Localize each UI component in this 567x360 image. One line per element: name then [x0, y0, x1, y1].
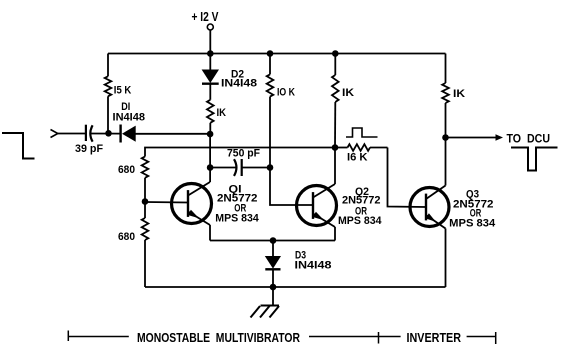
output waveform glyph (negative pulse): [511, 148, 558, 171]
svg-text:IK: IK: [217, 107, 227, 119]
svg-text:MPS 834: MPS 834: [215, 213, 259, 225]
svg-text:I5 K: I5 K: [114, 85, 132, 97]
label +12 V: [192, 9, 219, 24]
svg-text:TO DCU: TO DCU: [507, 132, 551, 146]
svg-text:I6 K: I6 K: [347, 152, 368, 164]
label 16 K: [347, 152, 368, 164]
diode D3 1N4148 (pointing down): [265, 241, 281, 288]
svg-text:IN4I48: IN4I48: [295, 260, 332, 272]
svg-text:IN4I48: IN4I48: [221, 78, 257, 90]
label Q1 OR: [234, 203, 246, 215]
+12V supply terminal: [207, 24, 213, 54]
bracket tick left: [67, 331, 69, 342]
label 10 K: [277, 87, 295, 99]
svg-text:MONOSTABLE MULTIVIBRATOR: MONOSTABLE MULTIVIBRATOR: [137, 331, 300, 345]
label 1K (below D2): [217, 107, 227, 119]
label D1: [121, 101, 130, 113]
svg-text:+ I2 V: + I2 V: [192, 9, 219, 24]
diode D2 1N4148 (pointing down): [202, 54, 219, 100]
wire node F to Q3 collector: [445, 138, 447, 186]
node dot rail/D2: [207, 50, 214, 57]
node dot rail/1K Q2: [332, 50, 339, 57]
label Q3 2N5772: [453, 199, 494, 211]
label Q2 OR: [355, 206, 367, 218]
label Q3: [466, 189, 479, 201]
ground symbol: [251, 287, 280, 318]
svg-text:MPS 834: MPS 834: [338, 215, 382, 227]
node F junction dot (output): [442, 134, 449, 141]
svg-text:IK: IK: [342, 87, 354, 99]
resistor R4 680 (top): [142, 157, 149, 202]
label Q3 OR: [470, 208, 482, 220]
resistor R8 1K (Q3 load): [442, 83, 449, 138]
svg-text:IN4I48: IN4I48: [113, 112, 146, 124]
label 680 (bottom): [118, 231, 135, 243]
wire Q1 collector up: [209, 168, 211, 183]
svg-text:680: 680: [118, 231, 135, 243]
svg-text:INVERTER: INVERTER: [407, 331, 462, 345]
label D3 1N4148: [295, 260, 332, 272]
node E junction dot (Q1 base divider): [142, 198, 149, 205]
transistor Q2 2N5772: [297, 184, 337, 227]
svg-text:39 pF: 39 pF: [75, 143, 103, 155]
capacitor C1 39 pF: [86, 125, 121, 142]
svg-text:IK: IK: [453, 88, 465, 100]
bracket line right: [467, 336, 496, 338]
label D2 1N4148: [221, 78, 257, 90]
svg-text:IO K: IO K: [277, 87, 295, 99]
label Q1 MPS 834: [215, 213, 259, 225]
output arrow to DCU: [446, 134, 504, 140]
input waveform glyph (falling step): [2, 133, 35, 159]
wire Q1 base: [145, 201, 188, 204]
resistor R6 1K (Q2 load): [332, 54, 339, 148]
wire input arrow to C1: [58, 133, 86, 135]
label 1K (Q2 load): [342, 87, 354, 99]
bracket line middle-right: [379, 336, 401, 338]
bracket line left: [68, 336, 129, 338]
resistor R3 10K with leads: [267, 54, 274, 168]
label 15 K: [114, 85, 132, 97]
emitter rail wire Q1-Q2: [210, 240, 335, 242]
bracket tick middle: [378, 332, 380, 344]
node dot 750pF right: [267, 164, 274, 171]
pulse waveform glyph (positive): [346, 128, 378, 137]
label Q3 MPS 834: [449, 218, 496, 230]
label Q1: [229, 184, 242, 196]
svg-text:750 pF: 750 pF: [227, 148, 260, 160]
label D1 1N4148: [113, 112, 146, 124]
wire Q2 emitter down: [334, 227, 336, 241]
wire Q2 collector line to 680 divider: [145, 148, 335, 157]
transistor Q3 2N5772: [410, 186, 449, 229]
wire 10K node down to Q2 base: [270, 168, 313, 206]
diode D1 1N4148 (cathode left): [121, 125, 210, 143]
label Q1 2N5772: [217, 193, 258, 205]
svg-text:680: 680: [118, 164, 135, 176]
wire Q1 emitter down: [209, 225, 211, 241]
wire 16K to Q3 base: [388, 148, 427, 208]
label D2: [231, 69, 244, 81]
label D3: [295, 250, 306, 262]
label MONOSTABLE MULTIVIBRATOR: [137, 331, 300, 345]
bracket line middle: [309, 336, 379, 338]
resistor R1 15K with leads: [105, 54, 112, 134]
svg-text:MPS 834: MPS 834: [449, 218, 496, 230]
ground line wire: [145, 286, 446, 288]
bracket tick right: [495, 332, 497, 344]
wire top rail right corner down: [445, 54, 447, 84]
node dot rail/10K: [267, 50, 274, 57]
resistor R2 1K (below D2): [207, 100, 214, 134]
node dot emitter rail / D3: [270, 237, 277, 244]
input arrow chevron: [51, 130, 58, 138]
node A junction dot (input/15K/D1): [105, 130, 112, 137]
label 39 pF: [75, 143, 103, 155]
label Q2: [355, 186, 369, 198]
wire node B down to 750pF node: [209, 134, 211, 168]
node D junction dot (Q2 collector): [332, 144, 339, 151]
label 1K (Q3 load): [453, 88, 465, 100]
node dot D3 / ground line: [270, 284, 277, 291]
top rail wire: [108, 53, 446, 55]
resistor R7 16K: [335, 144, 388, 151]
label TO DCU: [507, 132, 551, 146]
resistor R5 680 (bottom): [142, 202, 149, 288]
label 750 pF: [227, 148, 260, 160]
capacitor C2 750 pF: [210, 159, 270, 176]
label 680 (top): [118, 164, 135, 176]
node dot 750pF left: [207, 164, 214, 171]
label Q2 MPS 834: [338, 215, 382, 227]
transistor Q1 2N5772: [172, 182, 212, 225]
label INVERTER: [407, 331, 462, 345]
wire node D to Q2 collector: [334, 148, 336, 185]
wire Q3 emitter down to ground line: [445, 229, 447, 288]
node B junction dot (D1/1K/Q1 collector): [207, 131, 214, 138]
label Q2 2N5772: [342, 195, 381, 207]
